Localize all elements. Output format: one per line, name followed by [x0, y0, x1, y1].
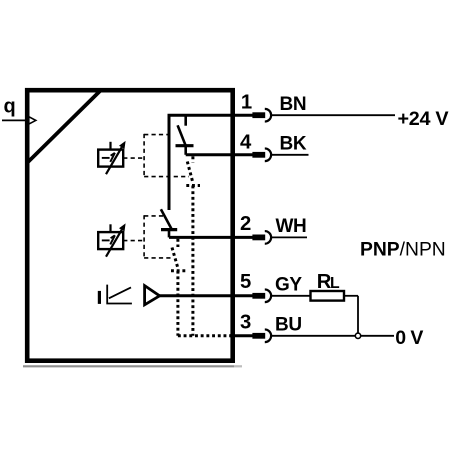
svg-text:0 V: 0 V [395, 327, 423, 349]
svg-text:BN: BN [280, 94, 307, 115]
svg-text:PNP/NPN: PNP/NPN [360, 240, 446, 261]
svg-text:RL: RL [317, 271, 340, 293]
svg-text:GY: GY [275, 274, 302, 295]
svg-text:1: 1 [241, 91, 252, 113]
svg-text:+24 V: +24 V [398, 108, 450, 130]
svg-text:4: 4 [240, 131, 252, 153]
svg-text:BU: BU [275, 314, 302, 335]
svg-text:3: 3 [240, 311, 251, 333]
svg-text:WH: WH [276, 216, 307, 237]
svg-text:5: 5 [240, 271, 251, 293]
svg-text:BK: BK [280, 134, 307, 155]
svg-text:2: 2 [240, 213, 251, 235]
svg-text:q: q [4, 96, 16, 118]
